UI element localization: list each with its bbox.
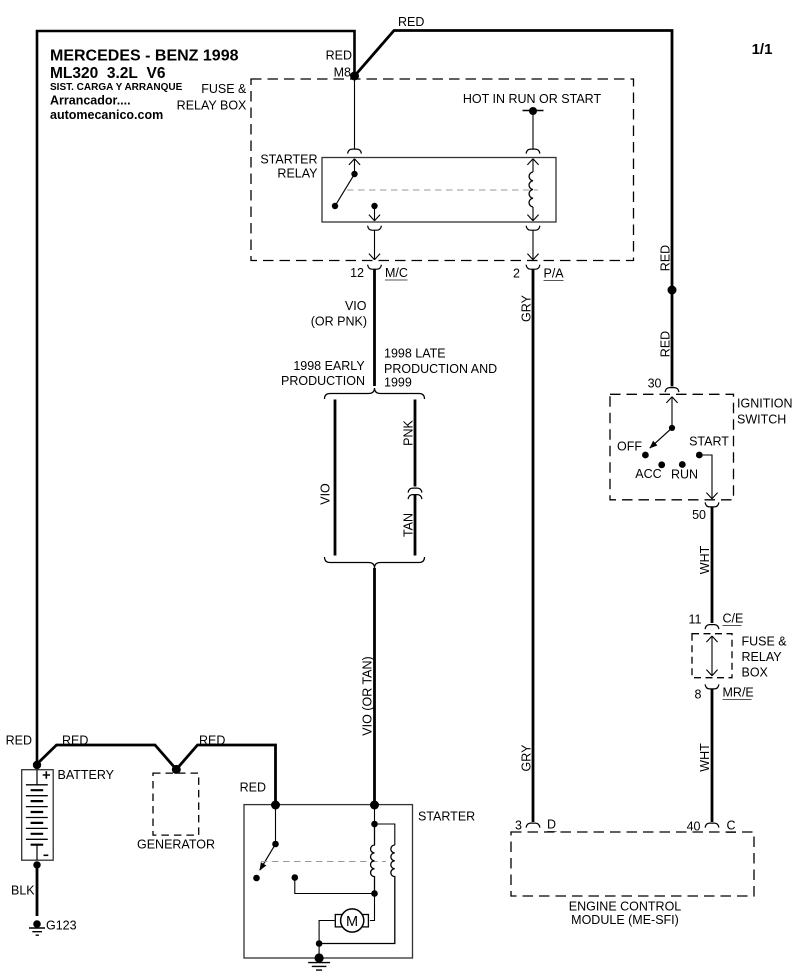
relay switch blade [335, 174, 355, 206]
svg-text:BOX: BOX [742, 666, 769, 680]
svg-text:FUSE &: FUSE & [742, 635, 788, 649]
svg-text:30: 30 [648, 377, 662, 391]
wire relay out to box edge [374, 231, 376, 260]
node generator tap [172, 765, 181, 774]
svg-text:12: 12 [350, 266, 364, 280]
relay pin arrow up [349, 159, 360, 165]
node starter blade pivot [272, 841, 279, 848]
connector socket below relay right [526, 226, 540, 231]
svg-text:M: M [346, 914, 358, 930]
motor M circle [341, 909, 364, 932]
starter actuation dashed link [261, 861, 386, 863]
svg-text:1998 EARLY: 1998 EARLY [293, 359, 365, 373]
svg-text:11: 11 [689, 613, 702, 627]
brace bottom merge [325, 557, 425, 568]
svg-text:ML320 3.2L V6: ML320 3.2L V6 [50, 65, 166, 82]
wire to hold-in winding [375, 824, 395, 845]
relay pin shaft [354, 159, 356, 174]
node battery positive [33, 761, 41, 769]
wire VIO (OR TAN) to starter [373, 568, 376, 806]
node winding junction [371, 890, 378, 897]
svg-text:50: 50 [692, 508, 706, 522]
wire VIO from M/C [373, 270, 376, 387]
ignition switch dashed box [610, 394, 734, 500]
wire GRY from P/A to ECM [532, 270, 535, 823]
node battery negative [33, 861, 40, 868]
svg-text:STARTER: STARTER [260, 153, 317, 167]
starter relay box [322, 158, 556, 223]
svg-text:RELAY: RELAY [742, 650, 783, 664]
svg-text:1/1: 1/1 [752, 41, 773, 58]
underline P/A [544, 280, 564, 282]
svg-text:GENERATOR: GENERATOR [137, 838, 215, 852]
ground G123 symbol [29, 928, 45, 935]
node starter ground [315, 953, 324, 962]
connector socket 3 D [526, 823, 540, 828]
battery box [22, 770, 54, 861]
underline C [727, 832, 737, 834]
node on red feed wire [668, 286, 677, 295]
svg-text:GRY: GRY [520, 744, 534, 772]
wire branch PNK upper [414, 400, 417, 487]
svg-text:VIO: VIO [345, 299, 367, 313]
wire WHT fuse box to ECM [711, 690, 714, 823]
engine control module dashed box [511, 832, 754, 896]
inline splice symbol upper [408, 488, 422, 493]
svg-text:BATTERY: BATTERY [58, 768, 115, 782]
connector socket 2 P/A [526, 265, 540, 270]
battery top stub [36, 770, 38, 785]
svg-text:C: C [727, 819, 736, 833]
svg-text:RUN: RUN [671, 468, 698, 482]
connector socket 8 MR/E [705, 684, 719, 689]
node position RUN [679, 461, 686, 468]
svg-text:MERCEDES - BENZ 1998: MERCEDES - BENZ 1998 [50, 48, 239, 65]
fuse element arrow up [706, 636, 717, 642]
battery plates [26, 785, 48, 845]
wire M8 down to relay [354, 76, 356, 149]
ignition pin arrow up [666, 397, 677, 403]
wire hot feed down to relay [532, 111, 534, 149]
node starter contact [253, 875, 260, 882]
svg-text:VIO: VIO [319, 483, 333, 505]
svg-text:FUSE &: FUSE & [201, 82, 247, 96]
wire branch TAN lower [414, 495, 417, 556]
svg-text:MODULE (ME-SFI): MODULE (ME-SFI) [571, 913, 679, 927]
wire branch VIO early [334, 400, 337, 556]
ignition switch blade [650, 428, 672, 448]
connector socket pin 30 [665, 388, 679, 393]
svg-text:D: D [547, 818, 556, 832]
node M8 junction [350, 72, 359, 81]
relay actuation dashed link [347, 189, 538, 191]
underline D [547, 831, 557, 833]
connector socket pin 50 [705, 502, 719, 507]
node starter feed junction [271, 801, 280, 810]
svg-text:2: 2 [513, 267, 520, 281]
starter switch blade [260, 844, 276, 870]
svg-text:BLK: BLK [11, 884, 35, 898]
node relay blade pivot [351, 171, 357, 177]
svg-text:P/A: P/A [544, 267, 565, 281]
hold-in winding [319, 845, 395, 944]
underline M/C [385, 279, 408, 281]
connector socket 12 M/C [368, 265, 382, 270]
svg-text:M8: M8 [334, 66, 351, 80]
wire RED top feed to ignition switch [355, 31, 673, 387]
svg-text:RED: RED [326, 49, 352, 63]
wire starter contact feed [275, 805, 277, 844]
svg-text:IGNITION: IGNITION [737, 397, 793, 411]
wire to motor [370, 894, 375, 921]
svg-text:MR/E: MR/E [723, 686, 754, 700]
svg-text:G123: G123 [46, 919, 77, 933]
battery plus sign [43, 771, 50, 778]
svg-text:RED: RED [659, 331, 673, 357]
svg-text:HOT IN RUN OR START: HOT IN RUN OR START [463, 92, 602, 106]
wire WHT ignition to fuse box [711, 507, 714, 623]
svg-text:RED: RED [240, 781, 266, 795]
node hot feed [529, 107, 537, 115]
svg-text:RED: RED [6, 734, 32, 748]
svg-text:PRODUCTION: PRODUCTION [281, 374, 365, 388]
relay coil shaft top [532, 159, 534, 172]
node motor ground junction [316, 940, 323, 947]
node position OFF [642, 452, 649, 459]
arrow at box edge right [527, 254, 538, 260]
fuse element arrow down [706, 670, 717, 676]
relay output shaft [374, 206, 376, 221]
generator dashed box [153, 773, 199, 835]
relay coil shaft bottom [532, 207, 534, 221]
wire battery to generator to starter [37, 745, 276, 806]
motor brush right [361, 915, 369, 927]
battery minus sign [44, 854, 49, 856]
node position ACC [658, 461, 665, 468]
svg-text:PRODUCTION AND: PRODUCTION AND [384, 362, 497, 376]
relay coil windings [529, 172, 533, 207]
relay coil arrow down [527, 215, 538, 221]
svg-text:SWITCH: SWITCH [737, 413, 786, 427]
connector socket 40 C [705, 823, 719, 828]
underline C/E [723, 625, 742, 627]
svg-text:M/C: M/C [385, 266, 408, 280]
svg-text:RELAY BOX: RELAY BOX [177, 99, 247, 113]
svg-text:RED: RED [398, 15, 424, 29]
svg-text:C/E: C/E [723, 612, 744, 626]
svg-text:STARTER: STARTER [418, 810, 475, 824]
svg-text:1999: 1999 [384, 376, 412, 390]
svg-text:OFF: OFF [617, 440, 642, 454]
svg-text:ENGINE CONTROL: ENGINE CONTROL [569, 900, 682, 914]
svg-text:VIO (OR TAN): VIO (OR TAN) [361, 656, 375, 735]
starter box [244, 805, 413, 958]
node relay contact left [332, 203, 338, 209]
svg-text:SIST. CARGA Y ARRANQUE: SIST. CARGA Y ARRANQUE [50, 82, 183, 93]
wire aux contact to motor feed [295, 878, 375, 894]
node solenoid split [371, 821, 378, 828]
svg-text:8: 8 [695, 688, 702, 702]
motor brush left [335, 915, 343, 927]
svg-text:3: 3 [515, 819, 522, 833]
fuse element wire [711, 636, 713, 676]
wire BLK battery to ground [36, 865, 39, 916]
wire motor to ground [319, 921, 334, 959]
wire solenoid feed [374, 805, 376, 824]
node starter aux contact [292, 874, 299, 881]
connector socket at relay pin 30 top [348, 149, 362, 154]
inline splice symbol lower [408, 495, 422, 500]
wire START contact to pin 50 [699, 455, 712, 499]
wire battery positive feed (left border) [37, 31, 355, 764]
svg-text:TAN: TAN [401, 513, 415, 537]
svg-text:RELAY: RELAY [277, 167, 318, 181]
svg-text:START: START [689, 435, 729, 449]
underline MR/E [723, 699, 752, 701]
hot feed stub bar [523, 110, 544, 112]
svg-text:Arrancador....: Arrancador.... [50, 94, 131, 108]
connector socket at relay coil top [526, 149, 540, 154]
node position START [696, 452, 703, 459]
svg-text:1998 LATE: 1998 LATE [384, 347, 446, 361]
brace top split [325, 388, 425, 399]
svg-text:(OR PNK): (OR PNK) [311, 315, 367, 329]
svg-text:PNK: PNK [401, 419, 415, 445]
pull-in winding [371, 824, 375, 894]
node ignition blade pivot [669, 425, 675, 431]
battery bottom stub [36, 845, 38, 861]
fuse & relay box dashed outline [251, 79, 634, 261]
arrow down at pin 50 [706, 493, 717, 499]
node relay output contact [371, 203, 377, 209]
svg-text:WHT: WHT [698, 743, 712, 772]
relay output arrow down [369, 215, 380, 221]
relay coil arrow up [527, 159, 538, 165]
svg-text:GRY: GRY [520, 294, 534, 322]
svg-text:RED: RED [659, 245, 673, 271]
svg-text:WHT: WHT [698, 545, 712, 574]
wire coil out to box edge [532, 231, 534, 260]
node starter solenoid junction [370, 801, 379, 810]
svg-text:ACC: ACC [635, 467, 661, 481]
node ground G123 [33, 920, 41, 928]
connector socket below relay left [368, 226, 382, 231]
starter ground symbol [308, 963, 330, 971]
arrow at box edge left [369, 254, 380, 260]
fuse & relay box 2 dashed outline [692, 634, 732, 678]
svg-text:automecanico.com: automecanico.com [50, 108, 163, 122]
ignition pin shaft [671, 397, 673, 428]
connector socket 11 C/E [705, 625, 719, 630]
